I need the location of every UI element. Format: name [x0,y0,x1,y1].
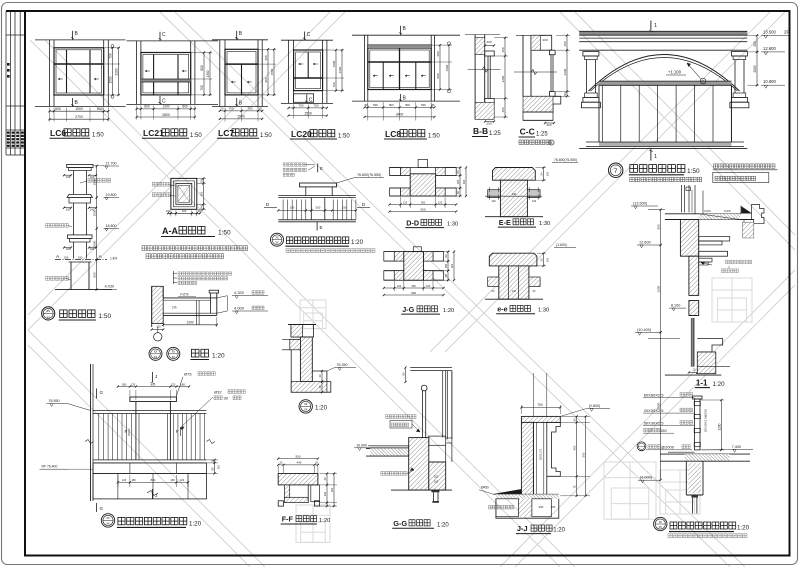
G-G right step mouldings [429,436,446,445]
bottom rail [278,219,356,221]
svg-text:1:50: 1:50 [338,134,350,140]
B-B break line [468,69,501,71]
svg-text:900: 900 [264,77,268,82]
E section mark bottom [316,222,318,231]
svg-text:C: C [307,32,311,38]
e-e flanges [488,277,499,287]
svg-text:4.000: 4.000 [234,306,245,311]
section mark B top (LC7) [236,31,238,40]
svg-text:2200: 2200 [338,66,342,73]
e-e cap [489,253,537,266]
railing dim 1100 [700,399,724,401]
svg-text:xx: xx [106,516,110,520]
svg-text:xx: xx [275,236,279,240]
svg-text:1:20: 1:20 [443,308,454,314]
svg-text:J-G: J-G [402,305,414,314]
svg-text:D-D: D-D [406,218,419,227]
svg-text:100: 100 [434,480,439,484]
svg-text:C: C [309,98,313,104]
svg-text:600: 600 [55,107,61,111]
1-1 cornice right [740,206,742,214]
svg-text:140: 140 [512,192,517,196]
svg-text:180: 180 [122,382,127,386]
LC21 dimensions [136,105,138,119]
window bottom sill [599,142,731,147]
svg-text:1500: 1500 [270,68,274,75]
column top cap [67,164,93,167]
svg-text:1:50: 1:50 [190,133,202,139]
svg-text:G: G [100,390,104,395]
C-C bottom sill block [523,96,561,112]
svg-text:440: 440 [297,461,302,465]
svg-text:3000: 3000 [93,240,97,247]
svg-text:10.000: 10.000 [356,443,367,447]
svg-text:800: 800 [405,103,410,107]
e-e shaft [499,266,529,299]
D-D dims [400,197,402,208]
section mark B bottom (LC8) [400,94,402,101]
railing note line [286,249,375,253]
section A-A plan [142,177,248,258]
svg-text:76.600(76.550): 76.600(76.550) [554,158,577,162]
window elevation LC6 [35,31,126,139]
svg-text:300: 300 [450,263,454,268]
center panel [310,198,312,220]
title column elevation [42,307,55,320]
svg-text:xx: xx [659,520,663,524]
svg-text:150: 150 [551,505,556,509]
svg-text:+1.100: +1.100 [668,70,682,75]
svg-text:200: 200 [546,123,551,127]
svg-text:1200: 1200 [162,105,169,109]
arch lintel line [579,49,747,51]
svg-text:1:50: 1:50 [92,133,104,139]
G-G leader notes [386,415,417,419]
section B-B [465,35,508,138]
svg-text:300: 300 [462,179,466,184]
section F-F [277,454,337,524]
svg-text:2200: 2200 [115,68,119,75]
section mark C top (LC21) [159,32,161,41]
G-G handrail pipe [421,385,427,391]
1-1 upper wall hatch [680,220,698,257]
J section mark top [151,372,153,382]
terrace railing post elevation [40,364,246,527]
ground line [55,289,112,291]
balusters left field [98,414,100,460]
1-1 roof slab [665,213,741,215]
svg-text:150: 150 [563,41,567,46]
svg-text:2200: 2200 [501,75,505,82]
svg-text:1:50: 1:50 [99,313,112,320]
section mark B bottom (LC6) [72,98,74,107]
svg-text:zs: zs [47,309,51,313]
svg-text:600: 600 [411,291,416,295]
title terrace railing [101,514,114,527]
svg-text:1:25: 1:25 [489,131,501,137]
svg-text:350: 350 [501,47,505,52]
section mark C bottom (LC21) [159,96,161,104]
svg-text:C: C [162,99,166,105]
svg-text:xx: xx [304,407,308,411]
svg-text:E: E [320,166,323,171]
svg-text:1200: 1200 [186,321,193,325]
svg-text:10.600: 10.600 [763,79,776,84]
svg-text:i=2%: i=2% [704,209,711,213]
svg-text:180: 180 [170,478,175,482]
window mullions [598,85,600,142]
watermark glyphs [296,278,752,542]
svg-text:120: 120 [131,382,136,386]
svg-text:G: G [100,506,104,511]
section E-E [485,158,578,227]
svg-text:1:50: 1:50 [687,168,700,175]
svg-text:120: 120 [171,382,176,386]
svg-text:600: 600 [264,55,268,60]
svg-text:1.8%: 1.8% [110,257,117,261]
svg-text:600: 600 [200,65,204,71]
balusters right field [173,414,175,460]
svg-text:100: 100 [199,178,203,183]
section J-J [479,373,610,534]
svg-text:1:20: 1:20 [189,520,202,527]
svg-text:1:30: 1:30 [447,222,458,228]
svg-text:C-C: C-C [520,127,535,137]
C-C right dims [556,34,570,36]
deck bands [93,459,206,461]
svg-text:150: 150 [546,257,550,262]
section mark 1 top [650,21,652,31]
svg-text:900: 900 [657,224,661,229]
svg-text:120: 120 [532,199,537,203]
column shaft lower [73,242,75,259]
svg-text:800: 800 [151,478,156,482]
svg-text:8: 8 [551,141,553,145]
svg-text:150: 150 [342,206,347,210]
svg-text:140: 140 [512,290,517,293]
LC6 dimensions [49,108,51,122]
svg-text:100: 100 [199,204,203,209]
svg-text:150: 150 [64,255,69,259]
J section mark bottom [151,489,153,499]
left step band [290,339,301,350]
indoor railing note [668,534,747,538]
1-1 window glazing [690,318,692,367]
E-E shaft [500,180,527,217]
svg-text:560: 560 [582,452,586,457]
svg-text:F: F [176,429,179,434]
svg-text:J: J [155,374,157,379]
column cap 2 [67,194,93,197]
svg-text:1:20: 1:20 [737,524,750,531]
arch note line [630,177,702,182]
svg-text:xx: xx [304,402,308,406]
svg-text:J-J: J-J [517,524,528,533]
section e-e [485,243,576,314]
svg-text:i=2%: i=2% [180,293,189,297]
svg-text:2000: 2000 [753,65,757,72]
svg-text:200: 200 [486,40,491,44]
column front elevation [42,162,119,321]
svg-text:110: 110 [217,464,221,469]
break marks [85,440,94,444]
section D-D [388,160,467,228]
svg-text:76.600(76.550): 76.600(76.550) [357,173,381,177]
G-G bottom [391,489,452,491]
svg-text:200: 200 [563,92,567,97]
svg-text:1:30: 1:30 [538,308,549,314]
svg-text:F: F [125,429,128,434]
svg-text:30: 30 [224,396,229,401]
svg-text:xx: xx [154,350,158,354]
svg-text:100: 100 [166,209,171,213]
svg-text:230: 230 [323,491,327,496]
svg-text:12.600: 12.600 [639,241,651,245]
balusters right [332,200,334,220]
parapet wall corner detail [282,325,356,414]
A-A leader notes [152,182,170,186]
railing label row 5 with circle [637,442,646,451]
second floor window arch detail [579,21,789,183]
1-1 bottom line [665,374,721,376]
svg-text:i=2%: i=2% [724,209,731,213]
coping cap [291,325,314,338]
title strip small text marks [7,63,24,147]
1-1 middle wall hatch [689,256,699,295]
svg-text:xx: xx [47,315,51,319]
svg-text:180: 180 [131,478,136,482]
canopy slab [163,297,217,299]
svg-text:2700: 2700 [75,115,83,119]
arch curves [589,55,740,92]
svg-text:800: 800 [421,103,426,107]
svg-text:(13.500): (13.500) [633,202,648,206]
svg-text:@2000: @2000 [661,445,675,450]
svg-text:76.350: 76.350 [337,363,348,367]
svg-text:150: 150 [78,255,83,259]
svg-text:150: 150 [290,206,295,210]
canopy downpipe [196,300,198,325]
bottom foot steps [291,371,331,392]
svg-text:RF 76.400: RF 76.400 [42,465,58,469]
svg-text:1500: 1500 [75,107,83,111]
section mark 1 bottom [650,148,652,160]
railing leader notes [283,163,306,166]
leader note base [46,276,69,280]
svg-text:1300: 1300 [206,70,210,77]
section mark B bottom (LC7) [236,98,238,107]
svg-text:1500: 1500 [304,111,312,115]
svg-text:xx: xx [659,525,663,529]
E-E baseline [485,216,543,218]
svg-text:LC8: LC8 [385,129,401,139]
svg-text:(10.400): (10.400) [637,328,652,332]
canopy fascia [209,290,218,293]
svg-text:800: 800 [93,272,97,277]
svg-text:1:20: 1:20 [319,518,330,524]
svg-text:xx: xx [172,350,176,354]
svg-text:7.400: 7.400 [732,445,742,449]
wall vertical hatch [300,337,312,382]
svg-text:1:50: 1:50 [218,230,231,237]
svg-text:80: 80 [431,103,435,107]
top dim row [129,390,131,400]
A-A right dims [197,177,206,179]
svg-text:1:30: 1:30 [539,221,550,227]
C-C break line [514,71,557,73]
arch top floor band [579,31,747,35]
section mark C bottom (LC20) [306,95,308,104]
post body [135,402,137,460]
railing label row 4 [644,428,661,432]
B-B right dims [494,37,508,39]
building corner line [90,364,92,501]
railing floor slab [668,451,695,453]
svg-text:1500: 1500 [332,60,336,67]
svg-text:Ø32: Ø32 [214,389,222,394]
svg-text:1:20: 1:20 [553,528,565,534]
svg-text:600: 600 [420,207,425,211]
svg-text:120: 120 [438,200,443,204]
svg-text:400: 400 [182,209,187,213]
leader note upper [88,178,111,182]
svg-text:xx: xx [106,521,110,525]
svg-text:76.550: 76.550 [49,399,60,403]
railing post front elevation [264,163,384,253]
svg-text:2F: 2F [784,29,790,34]
svg-text:1-1: 1-1 [696,378,708,387]
title arch detail [609,163,623,177]
railing wall below [685,461,687,495]
svg-text:1500: 1500 [237,115,245,119]
svg-text:180: 180 [444,263,448,268]
svg-text:600: 600 [436,51,440,56]
svg-text:xx: xx [154,355,158,359]
column right dim line [96,166,98,198]
svg-text:LC20: LC20 [291,129,312,139]
svg-text:150: 150 [434,475,439,479]
svg-text:900: 900 [436,73,440,78]
G-G top dims [405,368,407,383]
e-e baseline [485,298,543,300]
section C-C [514,34,570,145]
title corner detail [299,400,312,413]
svg-text:800: 800 [373,103,378,107]
indoor guard railing detail [637,392,753,538]
LC7 dimensions [224,108,226,122]
bottom dim row [117,475,119,487]
svg-text:12.600: 12.600 [763,46,776,51]
canopy bottom dims [162,317,164,327]
window elevation LC20 [281,32,350,140]
svg-text:750: 750 [228,107,233,111]
svg-text:LC21: LC21 [143,128,164,138]
svg-text:Ø75: Ø75 [184,371,192,376]
arch right boxed notes [714,164,776,168]
column cap 3 [68,235,93,239]
J-J floor labels [489,505,515,509]
svg-text:800: 800 [389,103,394,107]
LC8 dimensions [367,102,369,120]
G section mark top-left [96,389,98,399]
F-F channel [284,485,289,500]
svg-text:13.500: 13.500 [763,29,776,34]
svg-text:20X30X2.5@150: 20X30X2.5@150 [704,409,708,432]
svg-text:500: 500 [295,454,300,458]
svg-text:3400: 3400 [396,113,404,117]
svg-text:7: 7 [702,80,704,84]
svg-text:Ø450: Ø450 [481,485,489,489]
svg-text:1100: 1100 [717,423,721,430]
svg-text:80: 80 [364,103,368,107]
svg-text:C: C [162,32,166,38]
J-J floor slab [496,493,559,495]
svg-text:1000: 1000 [93,209,97,216]
svg-text:200: 200 [486,122,491,126]
J-G dims [393,281,395,291]
left pilaster [583,52,599,56]
svg-text:20X30X2.5: 20X30X2.5 [644,408,665,413]
svg-text:1:20: 1:20 [713,381,726,388]
J-J wall left hatch [521,422,533,495]
svg-text:(9.000): (9.000) [640,476,653,480]
J-J wall center [532,422,534,495]
svg-text:(2.800): (2.800) [589,404,600,408]
F-F cap band [278,474,318,485]
svg-text:750: 750 [313,104,318,108]
svg-text:150: 150 [501,107,505,112]
svg-text:20X1:2.5: 20X1:2.5 [539,448,543,460]
G-G parapet wall hatch [409,438,429,491]
section J-G [383,247,455,314]
column shaft upper [73,171,75,195]
svg-text:2900: 2900 [93,178,97,185]
A-A dims below [170,210,172,216]
J-J right mouldings [547,422,561,476]
balusters left [282,200,284,220]
svg-text:xx: xx [172,355,176,359]
G section mark bottom [96,503,98,512]
svg-text:1:50: 1:50 [260,133,272,139]
E-E right dims [535,167,546,169]
svg-text:120: 120 [122,478,127,482]
svg-text:300: 300 [330,487,334,492]
E-E cap [493,168,536,181]
svg-text:21.700: 21.700 [106,162,117,166]
F-F corner squares [278,501,283,506]
B-B sill hatch [475,102,494,119]
top rail [278,195,356,197]
svg-text:1:20: 1:20 [212,353,225,360]
svg-text:e-e: e-e [497,304,507,313]
window elevation LC7 [212,31,276,139]
svg-text:120: 120 [180,478,185,482]
J-J extension lines from above [532,373,534,416]
G-G deck slab [368,445,416,447]
svg-text:180: 180 [456,179,460,184]
canopy detail [149,271,268,360]
svg-text:(1.600): (1.600) [556,243,567,247]
svg-text:2200: 2200 [563,68,567,75]
E-E flanges [488,190,501,198]
svg-text:400: 400 [199,191,203,196]
svg-text:1: 1 [654,23,657,29]
svg-text:1:20: 1:20 [351,239,364,246]
E section mark top [317,164,319,173]
svg-text:150: 150 [546,171,550,176]
svg-text:E-E: E-E [499,218,511,227]
svg-text:2200: 2200 [657,285,661,292]
